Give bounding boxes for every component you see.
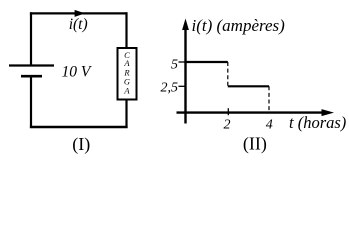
x-axis — [177, 111, 324, 113]
svg-text:i(t) (ampères): i(t) (ampères) — [192, 16, 286, 35]
svg-text:4: 4 — [266, 117, 273, 132]
svg-text:5: 5 — [171, 58, 178, 73]
wire right lower — [125, 100, 127, 129]
y-axis — [184, 26, 186, 124]
dashed drop at t=4 — [268, 86, 270, 112]
svg-text:10 V: 10 V — [62, 64, 92, 81]
battery positive plate — [9, 64, 54, 66]
wire left lower — [30, 76, 32, 128]
wire bottom — [30, 126, 128, 129]
svg-text:(II): (II) — [243, 133, 267, 154]
step segment at 2,5 A — [228, 85, 269, 87]
tick y=2,5 — [179, 85, 187, 87]
svg-text:(I): (I) — [72, 134, 90, 155]
tick y=5 — [179, 61, 187, 63]
battery negative plate — [21, 75, 42, 78]
svg-text:i(t): i(t) — [69, 16, 88, 33]
x-axis arrowhead — [322, 109, 335, 116]
svg-text:A: A — [123, 86, 130, 96]
dashed drop at t=2 — [227, 62, 229, 86]
y-axis arrowhead — [182, 19, 189, 31]
wire left upper — [30, 12, 32, 65]
svg-text:t (horas): t (horas) — [289, 113, 346, 132]
wire top (battery + to load) — [30, 12, 128, 14]
step segment at 5 A — [186, 61, 228, 63]
svg-text:2: 2 — [224, 118, 231, 133]
wire right upper — [125, 12, 127, 48]
svg-text:2,5: 2,5 — [161, 80, 179, 95]
load box CARGA — [118, 48, 137, 100]
tick x=2 — [227, 108, 229, 115]
current arrow i(t) — [75, 10, 85, 17]
